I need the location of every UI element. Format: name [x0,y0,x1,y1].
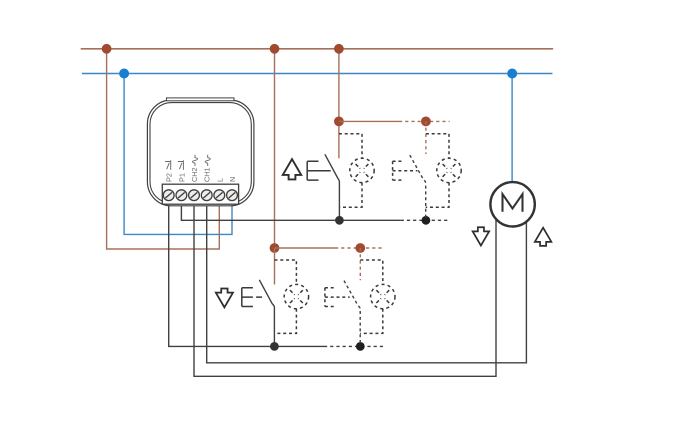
wire brown drop to module L terminal [107,49,220,249]
down arrow indicator lower switch [216,288,233,307]
node lower return second junction [356,342,365,351]
pin label CH1 [203,155,212,182]
wire second lamp branch top (dashed) [426,134,449,158]
wire lower lamp branch top (dashed) [275,260,297,284]
pushbutton actuator lower switch [242,288,262,307]
up arrow indicator upper switch [283,159,301,179]
terminal screw P2 [163,190,174,201]
node upper return junction [335,216,344,225]
svg-text:N: N [228,177,237,182]
down arrow indicator motor left [473,227,490,245]
node junction L bus right [334,44,344,54]
terminal screw N [227,190,238,201]
lamp indicator upper switch (dashed) [350,158,374,182]
pushbutton actuator upper switch [307,161,331,180]
wire upper brown branch solid [339,120,399,122]
pin label L [215,178,224,182]
wire lower second switch brown drop dashed [359,248,361,280]
wire upper switch return dashed extension [401,219,450,221]
pin label N [228,177,237,182]
pin label P1 [177,160,186,182]
switch S3 lever and lower contact wire [259,280,274,347]
up arrow indicator motor right [535,228,552,246]
wire lower second lamp branch top (dashed) [360,260,383,284]
wire N bus (blue neutral line) [82,73,553,75]
wire lower brown branch solid [275,247,336,249]
lamp indicator upper second switch (dashed) [437,158,461,182]
svg-text:P2: P2 [165,173,174,182]
wire lamp branch top (dashed) [339,134,362,158]
wire CH1 to motor left lead [207,196,527,363]
switch S1 lever and lower contact wire [325,154,340,220]
lamp indicator lower second switch (dashed) [371,284,395,308]
wire blue motor feed [511,74,513,184]
wire blue drop to module N terminal [124,74,232,235]
wire second lamp branch bottom (dashed) [426,183,449,208]
terminal screw P1 [176,190,187,201]
wire upper brown branch dashed [399,120,450,122]
node upper return second junction [422,216,431,225]
node junction L bus mid [270,44,280,54]
svg-text:CH1: CH1 [203,167,212,182]
wire brown feed to lower switch group [274,49,276,248]
wire lower lamp branch bottom (dashed) [274,309,296,334]
node junction L bus left [102,44,112,54]
wire upper switch return to P1 (solid) [181,196,400,220]
wire upper second switch brown drop dashed [425,121,427,154]
switch S2 lever and contact wire (dashed) [410,155,426,220]
wire CH2 to motor right lead [194,196,496,376]
node upper switch feed junction [334,117,344,127]
pin label P2 [165,160,174,182]
terminal screw CH1 [201,190,212,201]
wire brown feed to upper switch group [338,49,340,159]
node lower second switch feed junction (dashed branch) [355,243,365,253]
pushbutton actuator lower second switch (dashed) [325,288,350,307]
lamp indicator lower switch (dashed) [284,284,308,308]
wire lower switch return to P2 (solid) [169,196,324,346]
pin label CH2 [190,155,199,182]
terminal block [162,184,238,204]
terminal screw L [214,190,225,201]
wire lower brown branch dashed [335,247,385,249]
node junction N bus left [119,69,129,79]
svg-text:P1: P1 [177,173,186,182]
svg-text:CH2: CH2 [190,167,199,182]
node upper second switch feed junction (dashed branch) [421,117,431,127]
wire lower switch return dashed extension [324,345,386,347]
svg-text:L: L [215,178,224,182]
wire lower second lamp branch bottom (dashed) [360,309,383,334]
wire lamp branch bottom (dashed) [339,183,362,208]
pushbutton actuator upper second switch (dashed) [393,161,418,180]
node lower switch feed junction [270,243,280,253]
node junction N bus motor [507,69,517,79]
wire L bus (brown live line) [81,48,554,50]
switch S4 lever and contact wire (dashed) [344,281,360,347]
wire lower switch brown drop [274,248,276,285]
terminal screw CH2 [189,190,200,201]
node lower return junction [270,342,279,351]
motor M [490,182,534,226]
relay module body [147,98,254,206]
